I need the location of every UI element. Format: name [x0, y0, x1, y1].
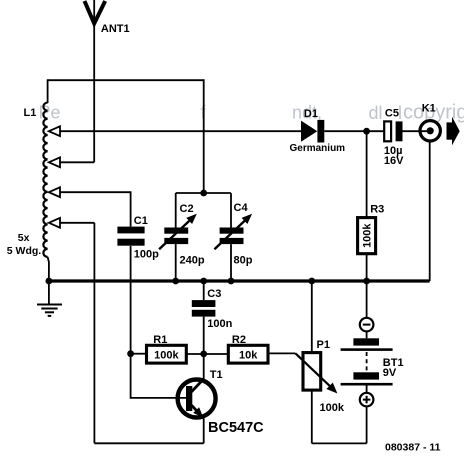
svg-text:Germanium: Germanium: [290, 143, 346, 154]
wire R3 top lead: [366, 131, 368, 217]
wire R1 right to R2 left: [186, 353, 228, 355]
node P1 on bus: [308, 278, 315, 285]
svg-text:100k: 100k: [362, 223, 374, 248]
svg-text:K1: K1: [422, 103, 436, 115]
wire tank vertical to C2/C4 junction: [203, 79, 205, 193]
wire collector vertical: [203, 354, 205, 379]
wire C3 top lead: [203, 281, 205, 300]
resistor R2: [228, 334, 268, 363]
antenna ANT1: [85, 1, 130, 35]
svg-text:Pe: Pe: [39, 103, 61, 123]
resistor R1: [147, 334, 187, 363]
svg-text:080387 - 11: 080387 - 11: [385, 442, 441, 454]
node D1/C5/R3: [363, 128, 370, 135]
wire C2 bottom lead: [175, 244, 177, 281]
wire R3 bottom lead: [366, 254, 368, 318]
wire tap1 to D1: [60, 130, 302, 132]
svg-text:L1: L1: [24, 107, 37, 119]
potentiometer P1: [296, 339, 345, 414]
wire K1 down: [429, 142, 431, 281]
svg-text:C5: C5: [385, 107, 399, 119]
svg-text:dl: dl: [369, 103, 383, 123]
svg-text:P1: P1: [317, 339, 330, 351]
node C3 on bus: [200, 278, 207, 285]
svg-text:ANT1: ANT1: [101, 23, 130, 35]
wire tap4 long vertical: [93, 223, 95, 443]
L1 tap arrow 4: [49, 218, 60, 228]
svg-text:100n: 100n: [207, 318, 232, 330]
connector K1: [420, 103, 440, 141]
inductor L1 coil: [7, 103, 49, 282]
svg-text:BC547C: BC547C: [208, 420, 264, 436]
wire plus to bottom: [366, 407, 368, 443]
resistor R3: [358, 203, 385, 253]
wire battery cell2 to plus: [366, 386, 368, 393]
transistor T1: [178, 369, 265, 436]
L1 tap arrow 1: [49, 126, 60, 136]
node collector/R1/R2/C3: [200, 351, 207, 358]
junction node dots: [46, 128, 371, 358]
svg-text:100k: 100k: [320, 402, 345, 414]
svg-text:D1: D1: [304, 108, 318, 120]
svg-text:5 Wdg.: 5 Wdg.: [7, 245, 41, 257]
wire R2 right to P1 wiper: [268, 352, 296, 354]
wire ground bus: [49, 279, 430, 282]
capacitor C3: [192, 288, 233, 330]
svg-text:R3: R3: [370, 203, 384, 215]
wire battery dashed middle: [366, 352, 368, 372]
svg-text:5x: 5x: [18, 232, 30, 244]
svg-text:C4: C4: [234, 202, 249, 214]
svg-text:C2: C2: [180, 203, 194, 215]
wire C4 top lead: [230, 193, 232, 228]
svg-text:100p: 100p: [134, 248, 159, 260]
wire C4 bottom lead: [230, 244, 232, 281]
wire top bus L1 to tank vertical: [48, 79, 204, 81]
wire L1 bottom lead: [48, 257, 49, 281]
wire antenna mast: [93, 0, 95, 162]
wire ground lead: [48, 281, 50, 304]
watermark (decorative): [39, 102, 464, 124]
battery BT1: [341, 318, 404, 407]
wire D1 to C5: [324, 130, 384, 132]
wire P1 top lead: [311, 281, 313, 353]
ground: [37, 305, 62, 316]
svg-text:C1: C1: [134, 215, 148, 227]
trimmer capacitor C2: [159, 203, 205, 266]
node L1/ground on bus: [46, 278, 53, 285]
wire battery bottom to P1: [312, 442, 367, 444]
L1 tap arrow 2: [49, 157, 60, 167]
capacitor C1: [117, 215, 159, 260]
wire C2-C4 bridge: [176, 192, 231, 194]
wire bottom emitter return: [94, 442, 203, 444]
diode D1: [290, 108, 346, 154]
node C2/C4 junction: [200, 190, 207, 197]
wire battery to minus: [366, 332, 368, 338]
wire tap4 horizontal: [60, 222, 95, 224]
wire emitter vertical: [203, 418, 205, 443]
svg-text:240p: 240p: [180, 255, 205, 267]
svg-text:16V: 16V: [384, 155, 404, 167]
svg-text:80p: 80p: [234, 254, 253, 266]
svg-text:100k: 100k: [154, 350, 179, 362]
svg-text:C3: C3: [207, 288, 221, 300]
node C4 on bus: [228, 278, 235, 285]
electrolytic capacitor C5: [384, 107, 404, 166]
wire C1 bottom to base node: [131, 246, 187, 398]
svg-text:R1: R1: [153, 334, 167, 346]
svg-text:9V: 9V: [383, 367, 397, 379]
output arrow symbol: [447, 122, 453, 139]
wire tap2 to antenna: [60, 161, 95, 163]
L1 tap arrow 3: [49, 187, 60, 197]
wire C5 to K1: [403, 130, 430, 132]
wire C3 bottom lead: [203, 317, 205, 354]
trimmer capacitor C4: [214, 202, 252, 267]
svg-text:T1: T1: [210, 369, 223, 381]
wire C2 top lead: [175, 193, 177, 228]
svg-text:R2: R2: [232, 334, 246, 346]
wire P1 bottom lead: [311, 390, 313, 443]
node C1/R1/base: [127, 350, 134, 357]
wire node to R1 left: [131, 353, 147, 355]
wire tap3 to C1: [60, 192, 131, 226]
svg-text:10k: 10k: [239, 350, 258, 362]
node C2 on bus: [172, 278, 179, 285]
wire L1 top lead: [47, 79, 49, 103]
node battery on bus: [363, 278, 370, 285]
